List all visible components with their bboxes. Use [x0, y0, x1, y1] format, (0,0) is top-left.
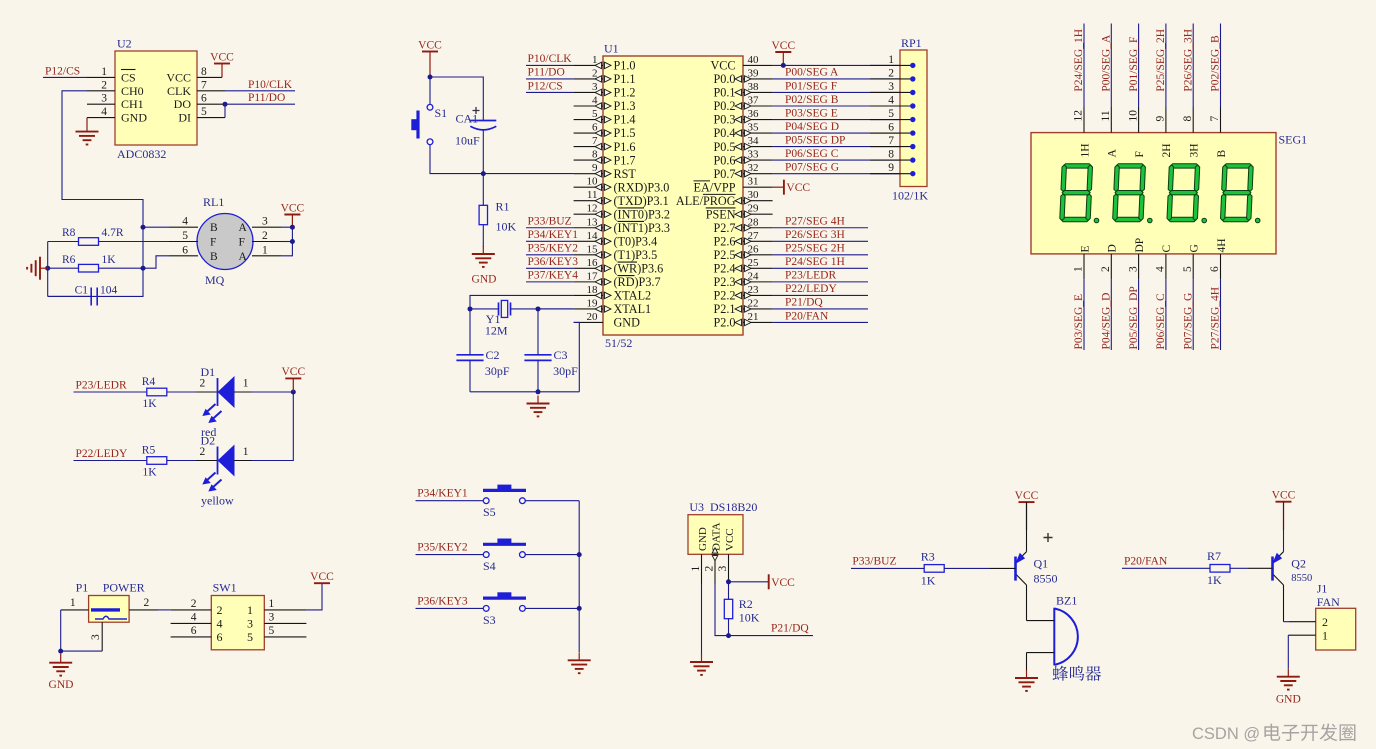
wire P26/SEG_3H: [1192, 24, 1194, 108]
pin 3 SW1: [264, 622, 306, 624]
svg-text:9: 9: [1155, 116, 1167, 122]
power VCC at SW1: [314, 582, 330, 584]
wire C3 bottom: [537, 360, 539, 391]
svg-text:5: 5: [247, 630, 253, 644]
wire P06/SEG C to RP1: [773, 159, 900, 161]
wire P1 pin1 down: [60, 610, 62, 651]
wire P03/SEG E to RP1: [773, 119, 900, 121]
pin 10 U1: [574, 186, 603, 188]
power VCC at U1 pin40: [775, 51, 791, 53]
svg-text:P24/SEG_1H: P24/SEG_1H: [1073, 29, 1085, 92]
resistor R6: [79, 264, 99, 272]
svg-text:P0.1: P0.1: [713, 86, 735, 100]
svg-text:40: 40: [748, 54, 760, 66]
power VCC at S1: [422, 51, 438, 53]
switch S5: [483, 485, 526, 504]
svg-text:19: 19: [587, 297, 599, 309]
pin buzzer top: [1027, 620, 1055, 622]
pin letters MQ: [210, 222, 248, 263]
wire R4 to D1: [167, 391, 200, 393]
chip U2 ADC0832 body: [115, 51, 197, 145]
junction rail: [536, 389, 541, 394]
wire U1 XTAL1 to crystal: [538, 308, 574, 310]
power VCC at LEDs: [285, 377, 301, 379]
svg-text:P25/SEG 2H: P25/SEG 2H: [785, 243, 845, 255]
svg-text:12: 12: [587, 203, 598, 215]
wire P23/LEDR to R4: [74, 391, 148, 393]
pin 15 U1: [574, 254, 603, 256]
P1 jack symbol: [91, 610, 127, 619]
wire buzzer to ground: [1026, 653, 1028, 670]
junction VCC pin40: [781, 63, 786, 68]
connector P1 body: [89, 596, 130, 623]
svg-text:104: 104: [100, 285, 118, 297]
svg-text:P2.7: P2.7: [713, 221, 735, 235]
svg-text:P11/DO: P11/DO: [528, 67, 565, 79]
svg-text:2: 2: [200, 446, 206, 458]
svg-text:6: 6: [888, 122, 894, 134]
svg-text:P1.2: P1.2: [614, 86, 636, 100]
wire R8 left to rail: [48, 241, 79, 243]
ground keys: [568, 652, 591, 673]
pin 2 P1: [129, 609, 158, 611]
svg-text:VCC: VCC: [771, 40, 795, 52]
svg-text:VCC: VCC: [771, 577, 795, 589]
svg-text:102/1K: 102/1K: [892, 189, 928, 203]
wire P00/SEG A to RP1: [773, 78, 900, 80]
svg-text:7: 7: [1209, 116, 1221, 122]
wire P21/DQ: [729, 635, 814, 637]
wire P07/SEG G to RP1: [773, 173, 900, 175]
switch S3: [483, 593, 526, 612]
svg-text:3H: 3H: [1189, 143, 1201, 157]
wire RST node to R1: [482, 174, 484, 206]
svg-text:RP1: RP1: [901, 36, 922, 50]
pin 12 SEG1: [1083, 107, 1085, 133]
wire R8 right to MQ pin5: [99, 241, 170, 243]
wire SW1 pin1 to VCC: [306, 583, 322, 610]
ground at U2 pin4: [76, 118, 99, 145]
svg-text:1K: 1K: [921, 573, 936, 587]
pin names U1 right: [676, 59, 736, 330]
svg-text:SEG1: SEG1: [1279, 133, 1308, 147]
svg-text:1: 1: [888, 54, 894, 66]
svg-text:P2.3: P2.3: [713, 275, 735, 289]
resistor pack RP1 body: [900, 50, 927, 187]
wire P36/KEY3 to U1: [526, 267, 574, 269]
wire C1 left: [48, 295, 91, 297]
svg-text:3: 3: [269, 612, 275, 624]
capacitor C2: [456, 355, 483, 361]
display SEG1 body: [1031, 133, 1276, 254]
svg-text:1K: 1K: [143, 398, 158, 410]
svg-text:A: A: [239, 251, 248, 263]
pin 2 RP1: [870, 78, 913, 80]
svg-text:P33/BUZ: P33/BUZ: [528, 216, 572, 228]
svg-text:P35/KEY2: P35/KEY2: [417, 542, 468, 554]
wire key S3 right: [525, 607, 579, 609]
wire vertical node: [142, 227, 144, 268]
svg-text:VCC: VCC: [281, 202, 305, 214]
pin 3 U2: [87, 103, 115, 105]
wire VCC to CA1: [430, 77, 483, 121]
wire MQ pin6 jog to node: [143, 256, 169, 268]
pin 27 U1: [743, 240, 773, 242]
wire P12/CS to U2 pin1: [43, 76, 87, 78]
svg-text:P02/SEG_B: P02/SEG_B: [1210, 35, 1222, 92]
svg-text:P00/SEG_A: P00/SEG_A: [1101, 34, 1113, 92]
svg-text:12: 12: [1073, 110, 1085, 122]
pin 10 SEG1: [1138, 107, 1140, 133]
pin 40 U1: [743, 64, 773, 66]
pin 18 U1: [574, 294, 603, 296]
svg-text:4H: 4H: [1216, 238, 1228, 252]
resistor R8: [79, 238, 99, 246]
resistor R2: [724, 599, 732, 618]
svg-text:EA/VPP: EA/VPP: [694, 180, 736, 194]
junction S4 bus: [577, 552, 582, 557]
svg-text:P26/SEG 3H: P26/SEG 3H: [785, 229, 845, 241]
svg-text:16: 16: [587, 257, 599, 269]
svg-text:VCC: VCC: [724, 528, 736, 551]
wire CA1 to RST: [482, 130, 484, 174]
svg-text:VCC: VCC: [166, 70, 191, 84]
wire U1 XTAL2 to crystal: [470, 295, 574, 309]
overline WR: [618, 261, 638, 263]
pin 8 U1: [574, 159, 603, 161]
svg-text:2: 2: [191, 598, 197, 610]
svg-text:GND: GND: [1276, 694, 1301, 706]
junction node R6: [141, 266, 146, 271]
pin 1 SEG1: [1083, 254, 1085, 279]
junction crystal right: [536, 306, 541, 311]
pin 2 J1: [1288, 621, 1315, 623]
power VCC at U1 pin31: [783, 180, 785, 195]
svg-text:3: 3: [247, 617, 253, 631]
wire P22/LEDY to R5: [74, 460, 148, 462]
svg-text:P05/SEG_DP: P05/SEG_DP: [1128, 286, 1140, 349]
svg-text:10K: 10K: [739, 611, 760, 625]
svg-text:SW1: SW1: [213, 581, 237, 595]
junction CA1 RST: [481, 171, 486, 176]
svg-text:(RD)P3.7: (RD)P3.7: [614, 275, 661, 289]
power VCC at Q2: [1276, 501, 1292, 503]
pin 34 U1: [743, 146, 773, 148]
wire VCC to Q1 emitter: [1026, 502, 1028, 552]
wire MQ pins 1-3 rail: [281, 227, 292, 256]
overline RD: [618, 275, 635, 277]
svg-text:3: 3: [1127, 266, 1139, 272]
pin 9 U1: [574, 173, 603, 175]
svg-text:30pF: 30pF: [485, 364, 510, 378]
junction U3 VCC: [726, 579, 731, 584]
svg-text:P23/LEDR: P23/LEDR: [76, 380, 127, 392]
svg-text:6: 6: [201, 93, 207, 105]
svg-text:(T0)P3.4: (T0)P3.4: [614, 235, 658, 249]
svg-text:P1.4: P1.4: [614, 113, 636, 127]
wire P01/SEG F to RP1: [773, 91, 900, 93]
svg-text:1: 1: [690, 566, 702, 572]
svg-text:P27/SEG 4H: P27/SEG 4H: [785, 216, 845, 228]
pin 23 U1: [743, 294, 773, 296]
pin 2 U1: [574, 78, 603, 80]
svg-text:14: 14: [587, 230, 599, 242]
svg-text:P26/SEG_3H: P26/SEG_3H: [1182, 29, 1194, 92]
LED D2: [203, 446, 234, 491]
svg-text:CA1: CA1: [456, 112, 479, 126]
wire P11/DO to U1: [526, 78, 574, 80]
pin 1 U1: [574, 64, 603, 66]
chip U1 8051 body: [603, 56, 743, 335]
svg-text:C1: C1: [75, 285, 89, 297]
svg-text:R8: R8: [62, 227, 76, 239]
overline EA: [694, 180, 711, 182]
ground P1: [49, 654, 72, 676]
svg-text:(INT1)P3.3: (INT1)P3.3: [614, 221, 671, 235]
pin 33 U1: [743, 159, 773, 161]
svg-text:2: 2: [144, 597, 150, 609]
svg-text:R3: R3: [921, 549, 935, 563]
pin 17 U1: [574, 281, 603, 283]
wire crystal left: [470, 308, 499, 310]
svg-text:P0.2: P0.2: [713, 99, 735, 113]
pin 24 U1: [743, 281, 773, 283]
svg-text:P01/SEG_F: P01/SEG_F: [1128, 37, 1140, 92]
junction left rail: [45, 266, 50, 271]
pin 38 U1: [743, 91, 773, 93]
decimal point 4 SEG1: [1255, 218, 1260, 223]
switch S4: [483, 539, 526, 557]
svg-text:7: 7: [888, 135, 894, 147]
svg-text:P1: P1: [76, 581, 89, 595]
svg-text:4: 4: [1155, 266, 1167, 272]
svg-text:1: 1: [269, 598, 275, 610]
svg-text:P02/SEG B: P02/SEG B: [785, 94, 839, 106]
svg-text:VCC: VCC: [310, 571, 334, 583]
svg-text:1: 1: [1322, 629, 1328, 643]
wire U2 pin7 P10/CLK: [225, 90, 295, 92]
pin 1 RP1: [870, 64, 913, 66]
wire U2 pin2 to MQ node: [62, 91, 143, 227]
svg-text:2: 2: [1100, 266, 1112, 272]
pin 3 U3: [728, 554, 730, 582]
svg-text:P25/SEG_2H: P25/SEG_2H: [1155, 29, 1167, 92]
wire P20/FAN: [773, 321, 868, 323]
svg-text:4: 4: [191, 612, 197, 624]
svg-text:P00/SEG A: P00/SEG A: [785, 67, 839, 79]
svg-text:CSDN @: CSDN @: [1192, 725, 1260, 743]
svg-text:S4: S4: [483, 559, 496, 573]
wire U3 pin1 to ground: [701, 584, 703, 654]
svg-text:XTAL2: XTAL2: [614, 289, 652, 303]
svg-text:P0.0: P0.0: [713, 72, 735, 86]
pin 19 U1: [574, 308, 603, 310]
svg-text:VCC: VCC: [710, 59, 735, 73]
wire P23/LEDR: [773, 281, 868, 283]
pin 1 MQ: [252, 255, 281, 257]
wire crystal right: [511, 308, 574, 310]
digit 3 SEG1: [1167, 164, 1200, 222]
pin 6 U1: [574, 132, 603, 134]
svg-text:P35/KEY2: P35/KEY2: [528, 243, 579, 255]
svg-text:DS18B20: DS18B20: [710, 500, 757, 514]
svg-text:Q1: Q1: [1034, 557, 1049, 571]
pin 8 RP1: [870, 159, 913, 161]
svg-text:6: 6: [182, 244, 188, 256]
wire U3 pin2 to DQ: [715, 584, 729, 636]
svg-text:P27/SEG_4H: P27/SEG_4H: [1210, 287, 1222, 350]
switch S1: [412, 104, 433, 144]
wire U2 pin6 P11/DO: [225, 103, 295, 105]
svg-text:B: B: [1216, 150, 1228, 158]
SW1 inner numbers: [217, 603, 254, 644]
svg-text:P10/CLK: P10/CLK: [248, 79, 293, 91]
svg-text:P21/DQ: P21/DQ: [771, 623, 809, 635]
svg-text:D: D: [1107, 244, 1119, 252]
pin 14 U1: [574, 240, 603, 242]
pin 36 U1: [743, 119, 773, 121]
svg-text:P0.3: P0.3: [713, 113, 735, 127]
ground left of rail: [27, 257, 48, 280]
svg-text:DATA: DATA: [710, 522, 722, 551]
svg-text:18: 18: [587, 284, 599, 296]
wire J1 pin1 to ground: [1287, 635, 1289, 668]
wire keys bus: [578, 501, 580, 652]
ground U3: [690, 654, 713, 675]
wire P1 pin3 to ground node: [61, 650, 102, 652]
svg-text:C2: C2: [486, 348, 500, 362]
wire C1 bottom loop: [48, 268, 143, 296]
svg-text:13: 13: [587, 216, 599, 228]
svg-text:G: G: [1189, 244, 1201, 252]
svg-text:D2: D2: [201, 434, 216, 448]
pin 2 SEG1: [1110, 254, 1112, 279]
svg-text:P21/DQ: P21/DQ: [785, 297, 823, 309]
wire VCC to Q2 emitter: [1283, 502, 1285, 552]
pin 1 J1: [1288, 634, 1315, 636]
svg-text:P07/SEG_G: P07/SEG_G: [1182, 293, 1194, 350]
pin 7 RP1: [870, 146, 913, 148]
pin 6 U2: [197, 103, 225, 105]
svg-text:GND: GND: [121, 111, 147, 125]
svg-text:P04/SEG D: P04/SEG D: [785, 121, 839, 133]
svg-text:1: 1: [101, 66, 107, 78]
pin 2 lead D1: [196, 391, 218, 393]
wire U3 pin3 node: [728, 582, 730, 600]
svg-text:R7: R7: [1207, 549, 1221, 563]
svg-text:P20/FAN: P20/FAN: [785, 310, 829, 322]
svg-text:A: A: [1107, 149, 1119, 158]
pin 20 U1: [574, 321, 603, 323]
digit 1 SEG1: [1060, 164, 1093, 222]
junction node pin4: [141, 225, 146, 230]
svg-text:P34/KEY1: P34/KEY1: [417, 488, 468, 500]
wire to VCC port: [729, 581, 769, 583]
wire P07/SEG_G: [1192, 279, 1194, 350]
pin 11 SEG1: [1110, 107, 1112, 133]
pin 26 U1: [743, 254, 773, 256]
svg-text:P20/FAN: P20/FAN: [1124, 556, 1168, 568]
overline PROG: [703, 193, 736, 195]
pin 2 MQ: [252, 241, 281, 243]
wire P36/KEY3 to key: [416, 607, 484, 609]
svg-text:VCC: VCC: [210, 51, 234, 63]
svg-text:4: 4: [888, 94, 894, 106]
junction crystal left: [468, 306, 473, 311]
svg-text:B: B: [210, 251, 218, 263]
pin 6 SEG1: [1220, 254, 1222, 279]
svg-text:A: A: [239, 222, 248, 234]
pin 7 U2: [197, 90, 225, 92]
svg-text:10K: 10K: [496, 220, 517, 234]
svg-text:E: E: [1079, 245, 1091, 252]
wire P04/SEG D to RP1: [773, 132, 900, 134]
pin 6 SW1: [171, 636, 212, 638]
digit 4 SEG1: [1221, 164, 1254, 222]
wire MQ pin2 stub: [281, 241, 292, 243]
junction S3 bus: [577, 606, 582, 611]
wire R2 to DQ node: [728, 619, 730, 636]
wire U1 GND down: [574, 322, 580, 391]
pin 1 SW1: [264, 609, 306, 611]
svg-text:8550: 8550: [1291, 573, 1312, 584]
decimal point 2 SEG1: [1148, 218, 1153, 223]
svg-text:P10/CLK: P10/CLK: [528, 53, 573, 65]
svg-text:P2.5: P2.5: [713, 248, 735, 262]
chip U3 DS18B20 body: [688, 515, 743, 555]
svg-text:POWER: POWER: [103, 581, 145, 595]
wire C2 bottom: [469, 360, 471, 391]
svg-text:P0.7: P0.7: [713, 167, 735, 181]
svg-text:B: B: [210, 222, 218, 234]
pin 35 U1: [743, 132, 773, 134]
wire P05/SEG DP to RP1: [773, 146, 900, 148]
wire S1 to RST row: [430, 145, 574, 174]
svg-text:2: 2: [200, 378, 206, 390]
wire key S4 right: [525, 554, 579, 556]
pin 28 U1: [743, 227, 773, 229]
svg-text:6: 6: [217, 630, 223, 644]
svg-text:2: 2: [1322, 615, 1328, 629]
svg-text:VCC: VCC: [1272, 490, 1296, 502]
svg-text:P06/SEG C: P06/SEG C: [785, 148, 839, 160]
svg-text:P0.6: P0.6: [713, 153, 735, 167]
resistor R1: [479, 205, 487, 224]
svg-text:11: 11: [1100, 110, 1112, 121]
pin buzzer bottom: [1027, 652, 1055, 654]
svg-text:P1.3: P1.3: [614, 99, 636, 113]
svg-text:J1: J1: [1317, 581, 1328, 595]
svg-text:P12/CS: P12/CS: [528, 80, 563, 92]
pin 31 U1: [743, 186, 773, 188]
pin 1 U3: [701, 554, 703, 584]
digit 2 SEG1: [1113, 164, 1146, 222]
svg-text:30pF: 30pF: [553, 364, 578, 378]
svg-text:P23/LEDR: P23/LEDR: [785, 270, 836, 282]
pin 3 MQ: [252, 226, 281, 228]
svg-text:GND: GND: [697, 527, 709, 551]
overline INT0: [618, 207, 645, 209]
svg-text:VCC: VCC: [786, 182, 810, 194]
svg-text:S5: S5: [483, 505, 496, 519]
svg-text:P36/KEY3: P36/KEY3: [417, 595, 468, 607]
label 蜂鸣器: [1053, 666, 1101, 681]
svg-text:3: 3: [101, 93, 107, 105]
svg-text:ALE/PROG: ALE/PROG: [676, 194, 736, 208]
svg-text:FAN: FAN: [1317, 595, 1340, 609]
pin 12 U1: [574, 213, 603, 215]
wire P35/KEY2 to U1: [526, 254, 574, 256]
